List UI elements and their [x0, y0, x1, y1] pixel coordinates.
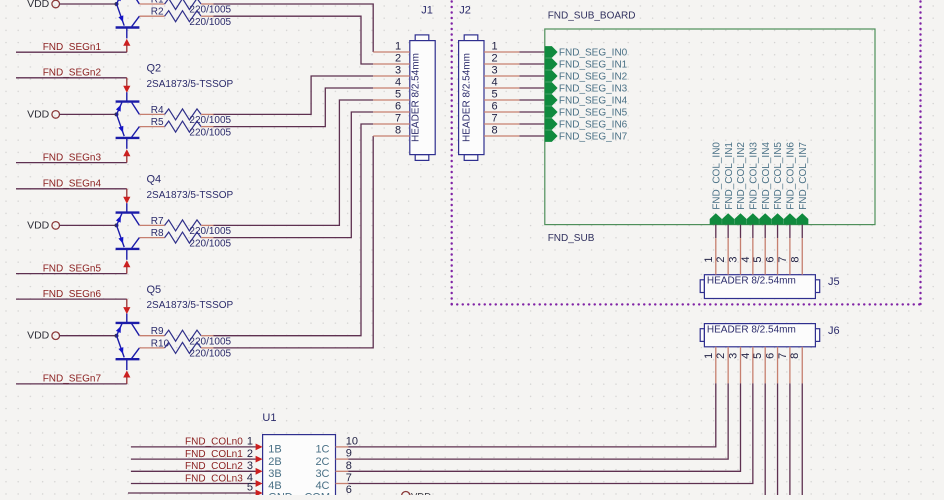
resistor R7 220/1005 — [139, 216, 231, 237]
wire VDD to emitters — [60, 3, 117, 5]
wire FND_COLn2 — [131, 470, 256, 472]
U1 pin 4 4B — [247, 472, 282, 492]
wire J2 pin 1 to FND_SEG_IN0 — [519, 51, 544, 53]
J1 pin 5 — [373, 89, 410, 101]
J5 pin 4 — [740, 238, 753, 275]
wire FND_SEGn1 — [16, 51, 127, 53]
svg-text:1: 1 — [247, 436, 253, 448]
svg-text:2: 2 — [491, 53, 497, 65]
svg-text:220/1005: 220/1005 — [189, 127, 231, 138]
svg-text:8: 8 — [789, 353, 801, 359]
junction — [115, 334, 119, 338]
svg-text:1C: 1C — [315, 444, 329, 456]
svg-text:3: 3 — [728, 353, 740, 359]
svg-text:FND_SEG_IN1: FND_SEG_IN1 — [559, 60, 628, 71]
J2 pin 3 — [484, 65, 519, 77]
U1 pin 6 COM — [304, 484, 352, 500]
U1 pin 3 3B — [247, 460, 282, 480]
J5 pin 1 — [703, 238, 716, 275]
J2 pin 5 — [484, 89, 519, 101]
svg-text:1B: 1B — [268, 444, 281, 456]
wire FND_SEGn6 — [16, 298, 127, 300]
svg-text:3C: 3C — [315, 468, 329, 480]
svg-text:FND_COL_IN6: FND_COL_IN6 — [786, 142, 797, 210]
J1 pin 4 — [373, 77, 410, 89]
svg-text:COM: COM — [304, 492, 330, 496]
J5 pin 8 — [789, 238, 802, 275]
svg-text:7: 7 — [346, 472, 352, 484]
svg-text:6: 6 — [346, 484, 352, 495]
J1 pin 7 — [373, 113, 410, 125]
port FND_SEG_IN5 — [545, 106, 628, 119]
svg-text:5: 5 — [247, 482, 253, 494]
wire VDD to emitters — [60, 335, 117, 337]
wire FND_COL_IN7 to J5 pin 8 — [801, 225, 803, 239]
svg-text:FND_SUB: FND_SUB — [548, 233, 595, 244]
U1 pin 10 1C — [315, 435, 358, 455]
wire J2 pin 6 to FND_SEG_IN5 — [519, 111, 544, 113]
J5 pin 7 — [777, 238, 790, 275]
svg-text:5: 5 — [752, 256, 764, 262]
svg-text:J1: J1 — [421, 4, 433, 16]
connector J5 HEADER 8/2.54mm — [700, 275, 820, 299]
svg-text:3: 3 — [728, 256, 740, 262]
svg-text:2: 2 — [395, 53, 401, 65]
port FND_SEG_IN3 — [545, 82, 628, 95]
J5 pin 5 — [752, 238, 765, 275]
junction — [115, 223, 119, 227]
svg-text:5: 5 — [395, 89, 401, 101]
svg-text:220/1005: 220/1005 — [189, 238, 231, 249]
svg-text:Q4: Q4 — [147, 174, 162, 186]
svg-text:6: 6 — [765, 256, 777, 262]
wire R4 to J1 pin — [214, 76, 374, 114]
transistor Q2a (PNP top) — [116, 92, 140, 114]
arrow into Q4 base bottom — [123, 260, 130, 267]
svg-text:FND_SEG_IN6: FND_SEG_IN6 — [559, 120, 628, 131]
svg-text:J2: J2 — [459, 4, 471, 16]
svg-text:FND_SEG_IN4: FND_SEG_IN4 — [559, 96, 628, 107]
svg-text:6: 6 — [395, 101, 401, 113]
svg-text:J6: J6 — [828, 325, 840, 337]
svg-text:1: 1 — [491, 41, 497, 53]
wire R5 to J1 pin — [214, 88, 374, 127]
svg-text:10: 10 — [346, 435, 358, 447]
transistor Q1a (PNP top) — [116, 0, 140, 4]
svg-text:2: 2 — [247, 448, 253, 460]
svg-text:8: 8 — [346, 460, 352, 472]
svg-text:FND_SEG_IN2: FND_SEG_IN2 — [559, 72, 628, 83]
transistor Q1b (PNP bottom) — [116, 4, 140, 39]
wire FND_COLn3 — [131, 483, 256, 485]
svg-text:4: 4 — [740, 256, 752, 262]
svg-text:8: 8 — [395, 125, 401, 137]
wire R10 to J1 pin — [214, 136, 374, 348]
U1 pin 2 2B — [247, 448, 282, 468]
svg-text:FND_SUB_BOARD: FND_SUB_BOARD — [548, 11, 636, 22]
svg-text:2: 2 — [715, 353, 727, 359]
wire J6 pin 8 down — [801, 383, 803, 495]
wire J6 pin 3 to U1 — [348, 383, 740, 471]
resistor R2 220/1005 — [139, 7, 231, 28]
port FND_COL_IN5 — [771, 142, 784, 225]
svg-text:VDD: VDD — [27, 0, 50, 10]
svg-text:7: 7 — [395, 113, 401, 125]
svg-text:FND_SEG_IN0: FND_SEG_IN0 — [559, 48, 628, 59]
wire J6 pin 6 down — [777, 383, 779, 495]
svg-text:3: 3 — [247, 460, 253, 472]
wire FND_COLn1 — [131, 458, 256, 460]
wire R8 to J1 pin — [214, 112, 374, 238]
J6 pin 2 — [715, 347, 728, 384]
connector J1 HEADER 8/2.54mm — [410, 35, 435, 161]
svg-text:FND_COL_IN1: FND_COL_IN1 — [724, 142, 735, 210]
port FND_COL_IN2 — [734, 142, 747, 225]
port FND_COL_IN7 — [796, 142, 809, 225]
svg-text:FND_COL_IN5: FND_COL_IN5 — [773, 142, 784, 210]
svg-text:FND_SEGn4: FND_SEGn4 — [43, 179, 102, 190]
wire FND_COL_IN4 to J5 pin 5 — [764, 225, 766, 239]
svg-text:GND: GND — [268, 492, 293, 496]
port FND_SEG_IN4 — [545, 94, 628, 107]
svg-text:4: 4 — [395, 77, 401, 89]
resistor R10 220/1005 — [139, 338, 231, 359]
dashed hierarchy boundary — [452, 2, 921, 305]
J1 pin 1 — [373, 41, 410, 53]
connector J6 HEADER 8/2.54mm — [700, 324, 820, 347]
port FND_COL_IN0 — [710, 142, 723, 225]
svg-text:HEADER 8/2.54mm: HEADER 8/2.54mm — [707, 276, 796, 287]
J1 pin 6 — [373, 101, 410, 113]
wire J2 pin 4 to FND_SEG_IN3 — [519, 87, 544, 89]
svg-text:5: 5 — [491, 89, 497, 101]
wire FND_COL_IN3 to J5 pin 4 — [752, 225, 754, 239]
svg-text:4: 4 — [491, 77, 497, 89]
J5 pin 6 — [765, 238, 778, 275]
svg-text:2B: 2B — [268, 456, 281, 468]
wire J2 pin 8 to FND_SEG_IN7 — [519, 135, 544, 137]
svg-text:FND_SEGn3: FND_SEGn3 — [43, 152, 102, 163]
arrow into Q2 base bottom — [123, 149, 130, 156]
svg-text:8: 8 — [789, 256, 801, 262]
port FND_SEG_IN2 — [545, 70, 628, 83]
J6 pin 8 — [789, 347, 802, 384]
resistor R9 220/1005 — [139, 326, 231, 347]
port FND_COL_IN4 — [759, 142, 772, 225]
U1 pin 9 2C — [315, 448, 351, 468]
svg-text:2SA1873/5-TSSOP: 2SA1873/5-TSSOP — [147, 300, 234, 311]
svg-text:FND_SEG_IN3: FND_SEG_IN3 — [559, 84, 628, 95]
resistor R8 220/1005 — [139, 228, 231, 249]
wire R2 to J1 pin — [214, 16, 374, 64]
junction — [115, 112, 119, 116]
port FND_SEG_IN6 — [545, 118, 628, 131]
svg-text:FND_SEGn5: FND_SEGn5 — [43, 263, 102, 274]
wire U1 pin 6 to VDD — [348, 495, 401, 497]
wire R1 to J1 pin — [214, 4, 374, 52]
svg-text:5: 5 — [752, 353, 764, 359]
svg-text:HEADER 8/2.54mm: HEADER 8/2.54mm — [707, 325, 796, 336]
svg-text:1: 1 — [703, 353, 715, 359]
svg-text:3: 3 — [491, 65, 497, 77]
J2 pin 2 — [484, 53, 519, 65]
IC U1 — [263, 435, 336, 497]
svg-text:VDD: VDD — [27, 108, 50, 120]
resistor R5 220/1005 — [139, 117, 231, 138]
arrow into Q4 base top — [123, 197, 130, 204]
transistor Q4b (PNP bottom) — [116, 225, 140, 260]
svg-text:2: 2 — [715, 256, 727, 262]
svg-text:2C: 2C — [315, 456, 329, 468]
svg-text:220/1005: 220/1005 — [189, 349, 231, 360]
arrow into Q1 base bottom — [123, 39, 130, 46]
port FND_SEG_IN1 — [545, 58, 628, 71]
wire J2 pin 2 to FND_SEG_IN1 — [519, 63, 544, 65]
svg-text:FND_COL_IN7: FND_COL_IN7 — [798, 142, 809, 210]
resistor R1 220/1005 — [139, 0, 231, 16]
svg-text:7: 7 — [777, 256, 789, 262]
svg-text:HEADER 8/2.54mm: HEADER 8/2.54mm — [461, 53, 472, 142]
svg-text:VDD: VDD — [411, 492, 431, 496]
svg-text:220/1005: 220/1005 — [189, 226, 231, 237]
wire R9 to J1 pin — [214, 124, 374, 336]
J5 pin 3 — [728, 238, 741, 275]
wire J6 pin 2 to U1 — [348, 383, 728, 459]
wire FND_COL_IN1 to J5 pin 2 — [727, 225, 729, 239]
wire J6 pin 5 down — [764, 383, 766, 495]
wire FND_COL_IN0 to J5 pin 1 — [715, 225, 717, 239]
wire J2 pin 7 to FND_SEG_IN6 — [519, 123, 544, 125]
svg-text:3: 3 — [395, 65, 401, 77]
wire J6 pin 7 down — [789, 383, 791, 495]
svg-text:Q2: Q2 — [147, 63, 162, 75]
svg-text:Q5: Q5 — [147, 284, 162, 296]
svg-text:FND_SEGn6: FND_SEGn6 — [43, 289, 102, 300]
arrow into Q2 base top — [123, 86, 130, 93]
svg-text:6: 6 — [765, 353, 777, 359]
svg-text:1: 1 — [395, 41, 401, 53]
svg-text:FND_COL_IN4: FND_COL_IN4 — [761, 142, 772, 210]
J1 pin 2 — [373, 53, 410, 65]
J6 pin 6 — [765, 347, 778, 384]
J2 pin 6 — [484, 101, 519, 113]
port FND_COL_IN3 — [747, 142, 760, 225]
svg-text:4C: 4C — [315, 480, 329, 492]
svg-text:6: 6 — [491, 101, 497, 113]
wire FND_COL_IN2 to J5 pin 3 — [740, 225, 742, 239]
wire FND_COL_IN5 to J5 pin 6 — [777, 225, 779, 239]
svg-text:FND_COLn0: FND_COLn0 — [185, 437, 243, 448]
U1 pin 8 3C — [315, 460, 351, 480]
svg-text:220/1005: 220/1005 — [189, 5, 231, 16]
U1 pin 7 4C — [315, 472, 351, 492]
svg-text:8: 8 — [491, 125, 497, 137]
svg-text:FND_SEGn2: FND_SEGn2 — [43, 68, 102, 79]
svg-text:FND_COL_IN3: FND_COL_IN3 — [749, 142, 760, 210]
J5 pin 2 — [715, 238, 728, 275]
wire J6 pin 4 to U1 — [348, 383, 753, 483]
svg-text:FND_COLn2: FND_COLn2 — [185, 461, 243, 472]
svg-text:220/1005: 220/1005 — [189, 336, 231, 347]
svg-text:4: 4 — [740, 353, 752, 359]
J6 pin 7 — [777, 347, 790, 384]
svg-text:FND_COL_IN0: FND_COL_IN0 — [712, 142, 723, 210]
J6 pin 5 — [752, 347, 765, 384]
wire J6 pin 1 to U1 — [348, 383, 716, 447]
svg-text:2SA1873/5-TSSOP: 2SA1873/5-TSSOP — [147, 190, 234, 201]
power VDD (U1) — [402, 492, 432, 500]
wire FND_SEGn2 — [16, 77, 127, 79]
svg-text:220/1005: 220/1005 — [189, 17, 231, 28]
transistor Q4a (PNP top) — [116, 203, 140, 225]
J6 pin 4 — [740, 347, 753, 384]
svg-text:FND_SEG_IN7: FND_SEG_IN7 — [559, 132, 628, 143]
wire FND_SEGn5 — [16, 273, 127, 275]
junction — [115, 2, 119, 6]
transistor Q5b (PNP bottom) — [116, 336, 140, 371]
U1 pin 1 1B — [247, 436, 282, 456]
wire FND_COLn0 — [131, 446, 256, 448]
svg-text:220/1005: 220/1005 — [189, 115, 231, 126]
wire FND_COL_IN6 to J5 pin 7 — [789, 225, 791, 239]
wire FND_SEGn7 — [16, 383, 127, 385]
wire J2 pin 5 to FND_SEG_IN4 — [519, 99, 544, 101]
svg-text:9: 9 — [346, 448, 352, 460]
port FND_SEG_IN0 — [545, 46, 628, 59]
svg-text:J5: J5 — [828, 276, 840, 288]
J1 pin 8 — [373, 125, 410, 137]
J6 pin 3 — [728, 347, 741, 384]
J2 pin 7 — [484, 113, 519, 125]
svg-text:U1: U1 — [262, 412, 276, 424]
svg-text:FND_SEGn1: FND_SEGn1 — [43, 42, 102, 53]
wire J2 pin 3 to FND_SEG_IN2 — [519, 75, 544, 77]
wire VDD to emitters — [60, 224, 117, 226]
svg-text:FND_SEG_IN5: FND_SEG_IN5 — [559, 108, 628, 119]
svg-text:7: 7 — [777, 353, 789, 359]
svg-text:FND_SEGn7: FND_SEGn7 — [43, 374, 102, 385]
svg-text:4B: 4B — [268, 480, 281, 492]
wire R7 to J1 pin — [214, 100, 374, 225]
J1 pin 3 — [373, 65, 410, 77]
wire FND_SEGn3 — [16, 162, 127, 164]
svg-text:7: 7 — [491, 113, 497, 125]
J2 pin 8 — [484, 125, 519, 137]
port FND_COL_IN6 — [784, 142, 797, 225]
svg-text:R1: R1 — [151, 0, 164, 6]
svg-text:HEADER 8/2.54mm: HEADER 8/2.54mm — [410, 53, 421, 142]
arrow into Q5 base top — [123, 307, 130, 314]
port FND_COL_IN1 — [722, 142, 735, 225]
U1 pin 5 GND — [128, 482, 293, 500]
svg-text:1: 1 — [703, 256, 715, 262]
hierarchical block FND_SUB_BOARD — [545, 29, 875, 225]
svg-text:2SA1873/5-TSSOP: 2SA1873/5-TSSOP — [147, 79, 234, 90]
J6 pin 1 — [703, 347, 716, 384]
svg-text:VDD: VDD — [27, 219, 50, 231]
transistor Q5a (PNP top) — [116, 314, 140, 336]
connector J2 HEADER 8/2.54mm — [459, 35, 484, 161]
J2 pin 4 — [484, 77, 519, 89]
J2 pin 1 — [484, 41, 519, 53]
resistor R4 220/1005 — [139, 105, 231, 126]
svg-text:FND_COLn1: FND_COLn1 — [185, 449, 243, 460]
arrow into Q5 base bottom — [123, 371, 130, 378]
port FND_SEG_IN7 — [545, 130, 628, 143]
wire FND_SEGn4 — [16, 188, 127, 190]
svg-text:FND_COLn3: FND_COLn3 — [185, 473, 243, 484]
svg-text:3B: 3B — [268, 468, 281, 480]
transistor Q2b (PNP bottom) — [116, 114, 140, 149]
svg-text:VDD: VDD — [27, 330, 50, 342]
svg-text:FND_COL_IN2: FND_COL_IN2 — [736, 142, 747, 210]
wire VDD to emitters — [60, 113, 117, 115]
